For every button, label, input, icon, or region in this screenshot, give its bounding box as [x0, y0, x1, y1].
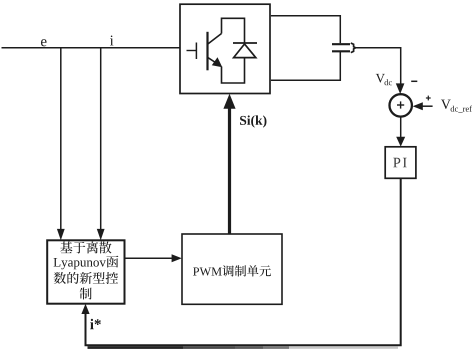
label Si(k) [240, 115, 266, 127]
wire capacitor bottom return [271, 52, 340, 80]
wire i tap down to controller [100, 48, 102, 231]
label i* [90, 319, 101, 329]
arrowhead Si(k) into converter [223, 94, 235, 109]
PI block [385, 147, 416, 179]
brace tap across capacitor [351, 43, 356, 53]
IGBT Q1 gate lead [187, 50, 197, 52]
plus inside summer [397, 101, 404, 108]
wire Vdc sense to summer [356, 48, 401, 85]
capacitor C1 bottom plate [332, 50, 350, 52]
wire Si(k) PWM to converter (thick) [228, 106, 231, 234]
diode D1 cathode bar [233, 42, 257, 44]
wire inner loop bottom [222, 58, 245, 83]
converter switch box U1 [180, 4, 270, 93]
wire PI output feedback to controller [86, 179, 401, 346]
arrowhead i into controller [97, 229, 105, 240]
controller block: discrete Lyapunov control [47, 240, 124, 303]
capacitor C1 top plate [332, 43, 350, 45]
minus sign at summer [411, 80, 417, 82]
diode D1 triangle [234, 44, 256, 58]
wire inner loop left/top [222, 18, 245, 43]
controller text line4 [80, 288, 92, 300]
controller text line1 [60, 241, 111, 253]
label Vdc_ref [441, 100, 472, 113]
plus sign at summer right input [426, 96, 431, 101]
IGBT Q1 emitter lead with arrow [208, 57, 223, 67]
scan shadow bar [88, 346, 399, 349]
IGBT Q1 collector lead [208, 34, 222, 45]
wire main input bus [2, 47, 181, 49]
IGBT Q1 gate bar [195, 43, 197, 60]
arrowhead Vdc into summer [396, 83, 405, 94]
wire Vdc_ref into summer [422, 105, 433, 107]
arrowhead into PWM [172, 254, 182, 262]
controller text line2 [54, 256, 119, 270]
wire e tap down to controller [60, 48, 62, 231]
PWM block label [193, 265, 271, 276]
arrowhead e into controller [57, 229, 65, 240]
wire controller to PWM [125, 257, 174, 259]
arrowhead into PI [396, 137, 405, 147]
node i label [110, 35, 114, 45]
label Vdc [376, 74, 392, 85]
wire summer to PI [400, 116, 402, 138]
arrowhead Vdc_ref into summer [413, 102, 423, 110]
IGBT Q1 body bar [206, 32, 208, 71]
node e label [41, 39, 47, 46]
PWM modulation block [182, 234, 282, 304]
controller text line3 [54, 272, 118, 284]
summing junction [390, 94, 412, 116]
wire converter to capacitor top [271, 16, 340, 43]
arrowhead i* into controller [81, 304, 89, 314]
PI label [393, 158, 406, 167]
